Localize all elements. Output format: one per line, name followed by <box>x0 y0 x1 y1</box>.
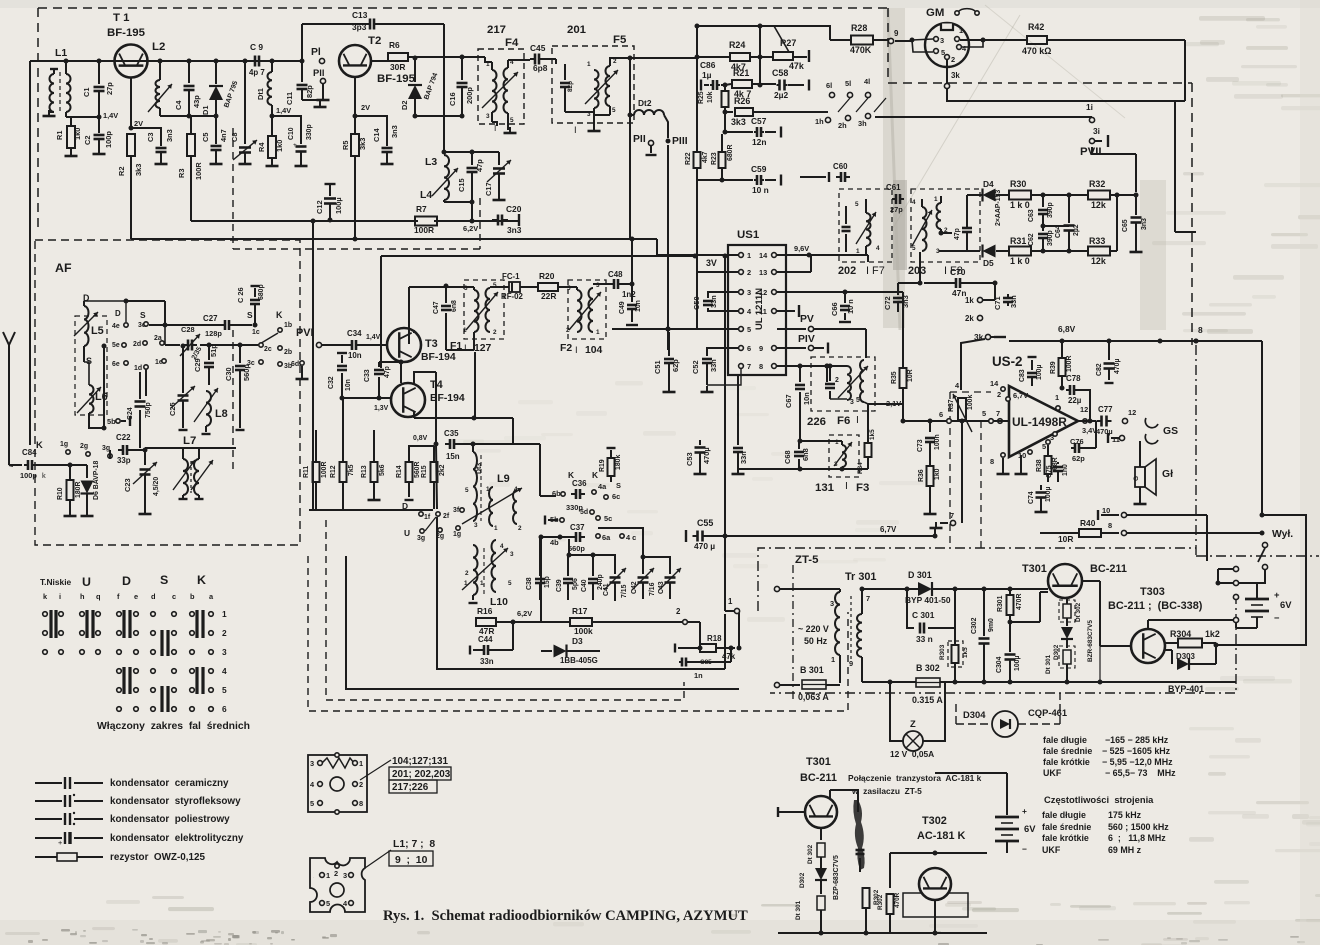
svg-text:47k: 47k <box>722 652 736 661</box>
svg-text:5: 5 <box>982 409 986 418</box>
svg-text:1n0: 1n0 <box>1062 464 1069 476</box>
svg-text:C8: C8 <box>230 133 239 142</box>
node R6 right <box>413 56 418 61</box>
svg-text:L7: L7 <box>183 435 196 447</box>
wire R16 right <box>496 621 541 623</box>
wire T3-T4 chain <box>400 362 402 383</box>
svg-text:1h: 1h <box>815 117 824 126</box>
svg-text:C57: C57 <box>751 116 767 126</box>
transformer F3 coil <box>842 445 846 467</box>
svg-text:3h: 3h <box>858 119 867 128</box>
svg-text:C 301: C 301 <box>912 610 935 620</box>
wire bus 256 <box>381 255 695 257</box>
svg-text:6n8: 6n8 <box>451 300 458 312</box>
capacitor C55 <box>696 531 699 542</box>
transistor T4 <box>391 383 425 417</box>
svg-text:R37: R37 <box>948 399 955 412</box>
svg-text:4 c: 4 c <box>626 533 636 542</box>
capacitor C76 <box>1074 443 1077 453</box>
svg-text:9m0: 9m0 <box>988 618 995 632</box>
svg-text:100R: 100R <box>414 225 434 235</box>
legend kondensator elektrolityczny <box>35 837 62 839</box>
wire x830 link <box>774 26 830 40</box>
resistor R35 <box>902 360 904 368</box>
svg-text:L2: L2 <box>152 41 165 53</box>
svg-text:fale średnie: fale średnie <box>1043 746 1092 756</box>
transformer 203 F8 box <box>911 189 980 262</box>
svg-text:5e: 5e <box>112 342 120 349</box>
svg-text:RF-02: RF-02 <box>501 292 524 301</box>
wire C84 out <box>36 464 70 466</box>
pin 3k <box>944 83 949 88</box>
svg-text:1: 1 <box>359 759 363 768</box>
resistor R31 <box>1009 247 1031 256</box>
svg-text:5p6: 5p6 <box>572 578 579 590</box>
svg-text:L10: L10 <box>490 597 508 608</box>
svg-text:2µ2: 2µ2 <box>1073 224 1080 236</box>
wire L7 tops <box>182 448 184 459</box>
svg-text:6,7V: 6,7V <box>880 525 897 534</box>
svg-text:C83: C83 <box>1019 369 1026 382</box>
capacitor C9 <box>254 56 257 67</box>
wire L3 top right <box>444 151 499 153</box>
svg-text:10k: 10k <box>707 91 714 103</box>
svg-text:C22: C22 <box>116 433 131 442</box>
pins 3c 3b <box>259 360 263 364</box>
svg-text:3: 3 <box>747 288 751 297</box>
svg-text:F2: F2 <box>560 343 572 354</box>
svg-text:1g: 1g <box>60 441 68 448</box>
svg-text:R16: R16 <box>477 606 493 616</box>
svg-text:C39: C39 <box>556 579 563 592</box>
svg-text:5: 5 <box>222 685 227 695</box>
pin US1 4 <box>739 309 744 314</box>
svg-text:C36: C36 <box>572 479 587 488</box>
resistor R303 <box>954 628 956 645</box>
wire C13 top <box>302 23 366 25</box>
capacitor C75 <box>1053 466 1063 469</box>
capacitor C77 <box>1100 416 1103 427</box>
pin GM 4 <box>957 45 962 50</box>
capacitor C37 <box>575 532 578 542</box>
pin US1 1 <box>739 253 744 258</box>
svg-text:C12: C12 <box>315 200 324 214</box>
svg-text:201: 201 <box>567 24 587 36</box>
wire pin7 bottom <box>961 434 963 523</box>
transformer F6 coil2 <box>860 360 864 402</box>
capacitor C10 electrolytic <box>296 145 307 148</box>
svg-text:K: K <box>36 439 43 450</box>
resistor R10 <box>69 465 71 480</box>
svg-text:5: 5 <box>310 799 314 808</box>
svg-text:2d: 2d <box>133 341 141 348</box>
wire C3 branch <box>131 128 161 146</box>
svg-text:D: D <box>402 501 408 511</box>
svg-text:4: 4 <box>876 245 880 252</box>
svg-text:3: 3 <box>474 522 478 529</box>
pin GM 1 <box>955 37 960 42</box>
svg-text:Z: Z <box>910 718 916 729</box>
svg-text:R303: R303 <box>939 644 946 660</box>
svg-text:F1: F1 <box>450 341 462 352</box>
capacitor C83 <box>1031 360 1033 370</box>
svg-text:GS: GS <box>1163 426 1178 437</box>
svg-text:4: 4 <box>514 486 518 493</box>
wire T303 base <box>1100 645 1131 647</box>
svg-text:Dt 301: Dt 301 <box>795 900 802 920</box>
wire switch down <box>1264 570 1266 575</box>
svg-text:−165 − 285 kHz: −165 − 285 kHz <box>1105 735 1169 745</box>
svg-text:1: 1 <box>596 329 600 336</box>
diode D1 <box>215 61 217 84</box>
svg-text:C76: C76 <box>1070 437 1084 446</box>
wire B301 right <box>826 684 840 686</box>
svg-text:S: S <box>616 481 621 490</box>
capacitor C13 <box>369 19 372 30</box>
svg-text:BC-211: BC-211 <box>1090 563 1127 575</box>
pin PVI <box>316 342 321 347</box>
pin US1 3 <box>739 290 744 295</box>
wire L6 bottom <box>89 413 104 428</box>
capacitor C301 <box>907 589 914 628</box>
node C15 <box>470 150 475 155</box>
svg-text:100µ: 100µ <box>334 197 343 214</box>
wire R31-R33 rail <box>1031 250 1088 252</box>
svg-text:14: 14 <box>990 379 999 388</box>
capacitor C62 <box>1042 226 1044 231</box>
transistor T303 <box>1131 629 1165 663</box>
svg-text:− 65,5− 73 MHz: − 65,5− 73 MHz <box>1105 768 1176 778</box>
svg-text:Dt 302: Dt 302 <box>807 844 814 864</box>
wire T301 emitter <box>1066 598 1068 604</box>
svg-text:BF-195: BF-195 <box>107 27 146 39</box>
svg-text:Rys. 1. Schemat radioodbiorni: Rys. 1. Schemat radioodbiorników CAMPING… <box>383 908 748 924</box>
capacitor C73 <box>929 421 931 432</box>
svg-text:ZT-5: ZT-5 <box>795 554 819 566</box>
svg-text:C25: C25 <box>168 402 177 416</box>
pin mains bottom <box>774 682 779 687</box>
wire R35 top <box>902 345 904 360</box>
svg-text:8: 8 <box>1108 521 1112 530</box>
capacitor C71 <box>1003 297 1013 300</box>
svg-text:3n3: 3n3 <box>507 225 522 235</box>
svg-text:750p: 750p <box>145 402 152 418</box>
svg-text:Włączony zakres fal średnic: Włączony zakres fal średnich <box>97 721 250 732</box>
wire R2 to bus <box>130 236 132 239</box>
svg-text:C61: C61 <box>886 183 901 192</box>
svg-text:12k: 12k <box>1091 200 1106 210</box>
wire y366 rail <box>777 365 847 367</box>
transistor T1 <box>115 45 148 78</box>
svg-text:1n2: 1n2 <box>622 290 636 299</box>
wire dashed tuner box mid <box>479 198 481 249</box>
resistor R32 <box>1088 191 1110 200</box>
resistor R33 <box>1088 247 1110 256</box>
svg-text:C48: C48 <box>608 270 623 279</box>
svg-text:R304: R304 <box>1170 629 1191 639</box>
svg-text:202: 202 <box>838 265 856 277</box>
wire dashed ZT-5 inner <box>792 565 794 700</box>
svg-text:1,4V: 1,4V <box>103 111 118 120</box>
svg-text:1i: 1i <box>1086 102 1093 112</box>
svg-text:6: 6 <box>747 344 751 353</box>
wire C70 right <box>964 282 995 284</box>
svg-text:Dt 302: Dt 302 <box>1075 602 1082 622</box>
resistor R7 <box>415 217 437 226</box>
wire T2 emitter <box>354 77 356 116</box>
svg-text:C64: C64 <box>1055 225 1062 238</box>
resistor R20 <box>538 283 558 291</box>
svg-text:9 ; 10: 9 ; 10 <box>395 855 428 866</box>
svg-text:− 525 −1605 kHz: − 525 −1605 kHz <box>1102 746 1171 756</box>
inductor L2 <box>159 61 161 80</box>
switch bars row1 h-q <box>85 610 88 638</box>
capacitor C72 <box>897 283 899 295</box>
svg-text:C10: C10 <box>288 127 295 140</box>
svg-text:4b: 4b <box>550 538 559 547</box>
wire battery down T302 <box>1006 841 1008 853</box>
transformer F2 <box>577 290 582 332</box>
wire T301 collector out <box>1082 580 1100 582</box>
resistor R3 <box>187 134 195 156</box>
svg-text:C41: C41 <box>603 583 610 596</box>
svg-text:fale długie: fale długie <box>1043 735 1087 745</box>
capacitor C34 <box>351 340 354 350</box>
svg-text:2: 2 <box>359 780 363 789</box>
svg-text:560p: 560p <box>568 544 585 553</box>
svg-text:680R: 680R <box>727 145 734 161</box>
svg-text:kondensator ceramiczny: kondensator ceramiczny <box>110 778 229 789</box>
svg-text:470µ: 470µ <box>1096 427 1113 436</box>
svg-text:GM: GM <box>926 7 944 19</box>
svg-text:5: 5 <box>465 487 469 494</box>
ground U2 8 <box>1002 458 1004 470</box>
svg-text:6,2V: 6,2V <box>517 609 532 618</box>
socket A pins <box>318 761 323 766</box>
svg-text:131: 131 <box>815 482 835 494</box>
wire speaker drop <box>1139 441 1141 467</box>
capacitor C78 <box>1060 386 1065 391</box>
wire det top <box>922 198 941 200</box>
wire T303 collector <box>1165 642 1178 644</box>
svg-text:6V: 6V <box>1280 599 1292 610</box>
svg-text:2: 2 <box>334 869 338 878</box>
wire F4 leads <box>489 61 492 63</box>
wire L7 right rail <box>199 447 236 449</box>
diode D302 detail <box>815 868 827 880</box>
resistor R17 <box>570 618 592 626</box>
svg-text:6b: 6b <box>552 489 561 498</box>
wire C37 left <box>541 536 572 538</box>
inductor Dt1 <box>271 61 273 72</box>
filter F2 box <box>568 280 606 339</box>
ink smudge <box>853 800 864 870</box>
svg-text:12: 12 <box>1080 405 1088 414</box>
legend kondensator ceramiczny <box>35 782 62 784</box>
resistor R6 <box>388 53 408 61</box>
svg-text:C65: C65 <box>1122 219 1129 232</box>
svg-text:5: 5 <box>326 899 330 908</box>
svg-text:D302: D302 <box>799 872 806 888</box>
svg-text:100k: 100k <box>574 626 593 636</box>
ground C2 <box>98 148 100 154</box>
capacitor C24 electrolytic <box>139 410 141 448</box>
resistor R38 <box>1047 445 1049 456</box>
node L2 top <box>158 59 163 64</box>
capacitor C12 electrolytic <box>325 183 336 185</box>
diode D301 <box>918 582 932 596</box>
filter F4 box <box>478 49 524 124</box>
wire bus 221 <box>191 220 418 222</box>
svg-text:6: 6 <box>939 410 943 419</box>
svg-text:S: S <box>160 573 168 587</box>
svg-text:100p: 100p <box>20 471 37 480</box>
svg-text:1: 1 <box>856 248 860 255</box>
wire US1 p8 <box>777 365 827 367</box>
capacitor C66 <box>840 305 850 308</box>
wire bus 239 <box>131 238 632 240</box>
svg-text:2k2: 2k2 <box>439 464 446 476</box>
svg-text:3n3: 3n3 <box>1141 218 1148 230</box>
node T1 em <box>129 126 134 131</box>
svg-text:3V: 3V <box>706 258 717 268</box>
svg-text:1: 1 <box>326 871 330 880</box>
svg-text:T.Niskie: T.Niskie <box>40 577 72 587</box>
wire x313 drop <box>312 221 314 510</box>
filter F5 box <box>552 46 634 123</box>
svg-text:1k0: 1k0 <box>275 140 284 152</box>
ground R4 <box>271 160 273 166</box>
svg-text:2V: 2V <box>361 103 370 112</box>
svg-text:7: 7 <box>866 594 870 603</box>
wire AF internal rail <box>145 447 199 449</box>
svg-text:C2: C2 <box>83 136 92 145</box>
connector GM hood <box>958 9 976 12</box>
capacitor C84 <box>9 464 22 466</box>
wire dashed volume box <box>949 392 951 548</box>
svg-text:100k: 100k <box>967 395 974 410</box>
svg-text:12k: 12k <box>1091 256 1106 266</box>
svg-text:1: 1 <box>587 61 591 68</box>
svg-text:C37: C37 <box>570 523 585 532</box>
wire pin2 right <box>688 621 700 623</box>
transistor T302 <box>919 868 951 900</box>
svg-text:1k5: 1k5 <box>962 647 969 658</box>
svg-text:5: 5 <box>747 325 751 334</box>
svg-text:5k6: 5k6 <box>379 464 386 476</box>
capacitor C59 <box>697 179 753 181</box>
svg-text:0.315 A: 0.315 A <box>912 695 943 705</box>
resistor R36 <box>927 466 934 486</box>
svg-text:5c: 5c <box>604 514 612 523</box>
svg-text:203: 203 <box>908 265 926 277</box>
svg-text:4: 4 <box>500 543 504 550</box>
svg-text:10R: 10R <box>1058 534 1073 544</box>
wire dashed tuner box left <box>232 128 234 249</box>
svg-text:S: S <box>140 310 146 320</box>
diode Dt301 detail <box>817 896 825 910</box>
svg-text:5: 5 <box>855 201 859 208</box>
resistor R34 <box>867 404 869 443</box>
label socket A row3 <box>389 780 437 793</box>
svg-text:2V: 2V <box>134 119 143 128</box>
resistor R18 <box>700 644 716 652</box>
diode D5 <box>983 245 996 258</box>
capacitor C53 <box>699 440 701 445</box>
wire rail469 <box>738 468 868 470</box>
pin mains top <box>774 586 779 591</box>
ground C3 <box>160 158 162 164</box>
svg-text:14: 14 <box>759 251 768 260</box>
capacitor C27 <box>224 320 227 330</box>
svg-text:3f: 3f <box>453 507 460 514</box>
antenna <box>3 332 15 345</box>
svg-text:R31: R31 <box>1010 236 1026 246</box>
svg-text:2c: 2c <box>264 346 272 353</box>
svg-text:C 26: C 26 <box>236 287 245 303</box>
wire D301 out <box>932 588 1048 590</box>
svg-text:fale krótkie: fale krótkie <box>1043 757 1090 767</box>
svg-text:5: 5 <box>912 245 916 252</box>
resistor R16 <box>476 618 496 626</box>
svg-text:15p: 15p <box>544 576 551 588</box>
svg-text:8: 8 <box>759 362 763 371</box>
svg-text:4p 7: 4p 7 <box>249 68 265 77</box>
svg-text:1k5: 1k5 <box>869 429 876 440</box>
svg-text:7: 7 <box>996 409 1000 418</box>
wire R28 rail <box>830 39 852 41</box>
capacitor C23 variable <box>144 450 146 465</box>
wire rail310 <box>308 509 310 511</box>
transformer 203 left <box>922 207 927 251</box>
svg-text:BC-211 ; (BC-338): BC-211 ; (BC-338) <box>1108 600 1203 612</box>
svg-text:R14: R14 <box>396 465 403 478</box>
wire x738 low <box>737 475 739 477</box>
wire bus y26 <box>697 25 774 27</box>
svg-text:12: 12 <box>1128 408 1136 417</box>
capacitor C51 <box>668 332 670 356</box>
svg-text:3: 3 <box>486 113 490 120</box>
capacitor C26 <box>250 299 260 302</box>
switch Wyl <box>1262 542 1267 547</box>
svg-text:R30: R30 <box>1010 179 1026 189</box>
capacitor C43 trimmer <box>669 556 671 574</box>
switch bars row5 S <box>160 686 163 712</box>
svg-text:BZP-683C7V5: BZP-683C7V5 <box>833 855 840 900</box>
svg-text:R32: R32 <box>1089 179 1105 189</box>
wire L9 core dashed <box>483 548 485 595</box>
svg-text:10n: 10n <box>348 351 362 360</box>
svg-text:B 301: B 301 <box>800 665 824 675</box>
svg-text:T303: T303 <box>1140 586 1165 598</box>
ground F5 <box>593 125 595 131</box>
wire y57 rail <box>697 56 729 58</box>
inductor L10 left <box>473 545 478 595</box>
wire bottom rail Q <box>778 932 987 934</box>
wire dashed top border <box>38 7 888 9</box>
svg-text:C42: C42 <box>631 581 638 594</box>
svg-text:BYP 401-50: BYP 401-50 <box>905 595 951 605</box>
socket A callout line <box>360 760 391 780</box>
svg-text:27p: 27p <box>105 82 114 95</box>
svg-text:217;226: 217;226 <box>392 782 429 793</box>
wire T301d emitter <box>820 828 822 840</box>
resistor R5 <box>354 116 356 134</box>
svg-text:33n: 33n <box>480 657 494 666</box>
capacitor C2 <box>98 117 100 133</box>
svg-text:kondensator poliestrowy: kondensator poliestrowy <box>110 814 230 825</box>
capacitor C38 <box>535 578 545 581</box>
